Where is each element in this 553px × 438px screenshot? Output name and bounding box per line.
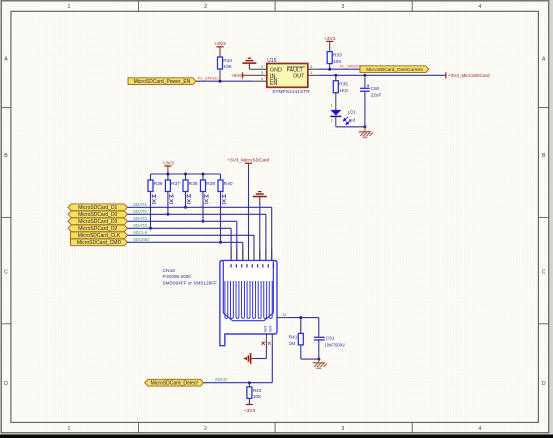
junction R41/pin11 net <box>299 316 302 319</box>
svg-text:1: 1 <box>310 71 312 75</box>
svg-text:SDAT3: SDAT3 <box>133 216 147 221</box>
port MicroSDCard_Power_EN <box>128 78 196 85</box>
wire SDCD net <box>204 382 273 384</box>
earth ground (pin 11 filter) <box>313 359 327 368</box>
LED LD1 red <box>330 110 356 125</box>
junction C61/ground <box>317 358 320 361</box>
svg-text:C: C <box>4 270 8 276</box>
svg-text:R36: R36 <box>154 181 163 187</box>
svg-text:SW1: SW1 <box>263 325 267 332</box>
svg-text:10K: 10K <box>223 64 232 70</box>
svg-text:R42: R42 <box>253 388 262 394</box>
svg-text:D: D <box>542 381 546 387</box>
svg-text:MicroSDCard_D0: MicroSDCard_D0 <box>78 212 117 218</box>
resistor R38 (pull-up, no-fit) <box>183 174 198 207</box>
power +5V0 (U15 pin 3) <box>231 72 243 78</box>
svg-text:A: A <box>4 57 8 63</box>
svg-text:PJS008-2000: PJS008-2000 <box>163 274 192 279</box>
svg-text:2: 2 <box>261 65 263 69</box>
power +3V3_MicroSDCard (to CN16 pin 4) <box>227 157 269 169</box>
svg-text:3: 3 <box>261 71 263 75</box>
pin number marks SW pins <box>268 342 271 345</box>
svg-text:4: 4 <box>479 4 482 10</box>
svg-text:5: 5 <box>310 65 312 69</box>
power +3V3_MicroSDCard (right bar) <box>446 72 490 78</box>
wire EN net: port to U15 pin 4 <box>196 80 253 82</box>
svg-text:red: red <box>349 117 356 122</box>
wire SDAT0 <box>128 214 266 260</box>
svg-text:3: 3 <box>341 426 344 432</box>
port MicroSDCard_Detect <box>145 379 204 386</box>
svg-text:R41: R41 <box>289 334 298 340</box>
svg-text:MicroSDCard_CMD: MicroSDCard_CMD <box>77 240 122 246</box>
svg-text:MicroSDCard_Power_EN: MicroSDCard_Power_EN <box>134 79 191 85</box>
svg-text:+3V3_MicroSDCard: +3V3_MicroSDCard <box>448 73 490 78</box>
svg-text:PL_GPIO61: PL_GPIO61 <box>198 77 218 81</box>
svg-text:SMD064FF or SMS128FF: SMD064FF or SMS128FF <box>163 281 218 286</box>
svg-text:MicroSDCard_D1: MicroSDCard_D1 <box>78 205 117 211</box>
wire LED cathode to ground rail <box>335 116 337 126</box>
svg-text:U15: U15 <box>267 58 276 64</box>
earth ground (top section) <box>359 127 373 137</box>
svg-text:GND: GND <box>270 68 282 74</box>
resistor R40 (pull-up, no-fit) <box>218 174 233 242</box>
port MicroSDCard_D2 <box>68 225 128 232</box>
wire +3V3 rail over R36-R40 <box>151 173 221 175</box>
wire R33 to FAULT net <box>329 64 331 70</box>
svg-text:B: B <box>542 153 546 159</box>
svg-text:PL_GPIO57: PL_GPIO57 <box>340 65 360 69</box>
port MicroSDCard_D1 <box>68 204 128 211</box>
wire GND symbol to U15 pin 2 <box>249 68 266 70</box>
wire R41 bottom rail <box>301 358 319 360</box>
wire R35 to LED <box>335 93 337 111</box>
junction EN/R34 <box>219 80 222 83</box>
junction R42/SDCD <box>248 381 251 384</box>
ground GND (U15 pin 2) <box>242 58 256 69</box>
junction R37/SDAT0 <box>166 213 169 216</box>
CN16 pin 11 wire <box>277 313 319 318</box>
ground GND (to CN16 pin 6) <box>253 192 267 203</box>
svg-text:1K0: 1K0 <box>339 88 348 94</box>
IC U15 STMPS2141STR <box>261 58 312 95</box>
svg-text:R38: R38 <box>189 181 198 187</box>
wire SDAT3 <box>128 221 237 260</box>
svg-text:3: 3 <box>341 4 344 10</box>
junction R33/FAULT <box>328 68 331 71</box>
junction rail/R38 <box>184 173 187 176</box>
svg-text:SDAT2: SDAT2 <box>133 223 147 228</box>
svg-text:1: 1 <box>331 103 333 107</box>
svg-text:MicroSDCard_Detect: MicroSDCard_Detect <box>151 380 199 386</box>
svg-text:B: B <box>4 153 8 159</box>
svg-text:OUT: OUT <box>293 74 305 80</box>
svg-text:MicroSDCard_D2: MicroSDCard_D2 <box>78 226 117 232</box>
svg-text:SDCMD: SDCMD <box>133 237 149 242</box>
svg-text:SW2: SW2 <box>269 325 273 332</box>
svg-text:2: 2 <box>204 4 207 10</box>
svg-text:D: D <box>4 381 8 387</box>
power +3V3 (above R34) <box>214 41 226 57</box>
capacitor C60 22uF <box>360 75 381 127</box>
svg-text:R35: R35 <box>339 82 348 88</box>
svg-text:4: 4 <box>479 426 482 432</box>
resistor R35 1K0 <box>333 75 348 94</box>
svg-text:4: 4 <box>261 77 263 81</box>
svg-text:C61: C61 <box>326 335 335 340</box>
svg-text:R33: R33 <box>333 53 342 59</box>
wire R34 bottom to EN net <box>219 69 221 81</box>
svg-text:R39: R39 <box>206 181 215 187</box>
wire GND stem to CN16 pin 6 <box>259 203 261 261</box>
svg-text:2: 2 <box>204 426 207 432</box>
svg-text:+3V3_MicroSDCard: +3V3_MicroSDCard <box>227 157 269 162</box>
wire FAULT net <box>308 68 319 70</box>
junction R38/SDAT1 <box>184 206 187 209</box>
wire SDAT2 <box>128 228 232 260</box>
power +3V3 (resistor array) <box>162 160 174 174</box>
svg-text:C60: C60 <box>371 86 380 91</box>
capacitor C61 10nF/500V <box>314 318 345 360</box>
wire SDCLK <box>128 235 255 260</box>
junction rail/+3V3 <box>166 173 169 176</box>
svg-text:1M: 1M <box>289 341 296 347</box>
CN16 switch pin SW2 wire to detect net <box>271 334 273 383</box>
svg-text:SDCLK: SDCLK <box>133 230 148 235</box>
resistor R36 (pull-up, no-fit) <box>148 174 163 228</box>
svg-text:EN: EN <box>270 81 278 87</box>
resistor R34 10K <box>218 57 233 70</box>
resistor R33 10K <box>327 52 342 65</box>
wire OUT net +3V3_MicroSDCard rail <box>308 74 319 76</box>
svg-text:10nF/500V: 10nF/500V <box>324 342 345 347</box>
svg-text:R40: R40 <box>224 181 233 187</box>
resistor R37 (pull-up, no-fit) <box>165 174 180 214</box>
wire SDAT1 <box>128 207 272 260</box>
wire SDCMD <box>128 242 243 260</box>
ground GND (switch common, pointing left) <box>244 353 258 364</box>
port MicroSDCard_D3 <box>68 218 128 225</box>
svg-text:1: 1 <box>68 426 71 432</box>
svg-text:MicroSDCard_CLK: MicroSDCard_CLK <box>78 233 121 239</box>
svg-text:CN16: CN16 <box>163 268 176 274</box>
resistor R39 (pull-up, no-fit) <box>201 174 216 221</box>
junction C60/ground rail <box>363 125 366 128</box>
junction R39/SDAT3 <box>202 220 205 223</box>
resistor R41 1M <box>289 318 304 360</box>
junction rail/R39 <box>202 173 205 176</box>
svg-text:SDAT0: SDAT0 <box>133 209 147 214</box>
svg-text:R34: R34 <box>223 58 232 64</box>
CN16 top pin stubs <box>231 250 272 261</box>
svg-text:C: C <box>542 270 546 276</box>
port MicroSDCard_D0 <box>68 211 128 218</box>
wire +3V3_MicroSDCard stem to CN16 pin 4 <box>248 169 250 261</box>
svg-text:22uF: 22uF <box>371 93 382 98</box>
svg-text:FAULT: FAULT <box>287 68 304 74</box>
power +3V3 (below R42, pointing down) <box>244 405 256 414</box>
CN16 switch pin SW1 wire to ground <box>258 334 267 359</box>
svg-text:LD1: LD1 <box>348 110 357 115</box>
junction R36/SDAT2 <box>149 227 152 230</box>
CN16 designator and part numbers <box>163 268 218 286</box>
svg-text:+5V0: +5V0 <box>231 73 242 78</box>
noERC cross on SW pin <box>262 342 265 345</box>
svg-text:MicroSDCard_OverCurrent: MicroSDCard_OverCurrent <box>366 67 423 72</box>
svg-text:SDAT1: SDAT1 <box>133 202 147 207</box>
resistor R42 10K <box>247 383 262 405</box>
svg-text:SDCD: SDCD <box>215 377 227 382</box>
svg-text:10K: 10K <box>253 394 262 400</box>
junction R35/OUT <box>334 74 337 77</box>
svg-text:11: 11 <box>282 313 286 317</box>
connector CN16 microSD socket body <box>220 261 277 346</box>
junction R40/SDCMD <box>219 241 222 244</box>
port MicroSDCard_CMD <box>71 239 128 246</box>
svg-text:MicroSDCard_D3: MicroSDCard_D3 <box>78 219 117 225</box>
port MicroSDCard_OverCurrent <box>360 66 429 73</box>
svg-text:R37: R37 <box>171 181 180 187</box>
svg-text:A: A <box>542 57 546 63</box>
svg-text:STMPS2141STR: STMPS2141STR <box>272 89 310 95</box>
svg-text:2: 2 <box>331 119 333 123</box>
port MicroSDCard_CLK <box>71 232 128 239</box>
power +3V3 (above R33) <box>324 36 336 52</box>
svg-text:1: 1 <box>68 4 71 10</box>
svg-text:+3V3: +3V3 <box>244 408 256 414</box>
junction C60/OUT <box>363 74 366 77</box>
wire +5V0 to U15 pin 3 IN <box>243 74 253 76</box>
